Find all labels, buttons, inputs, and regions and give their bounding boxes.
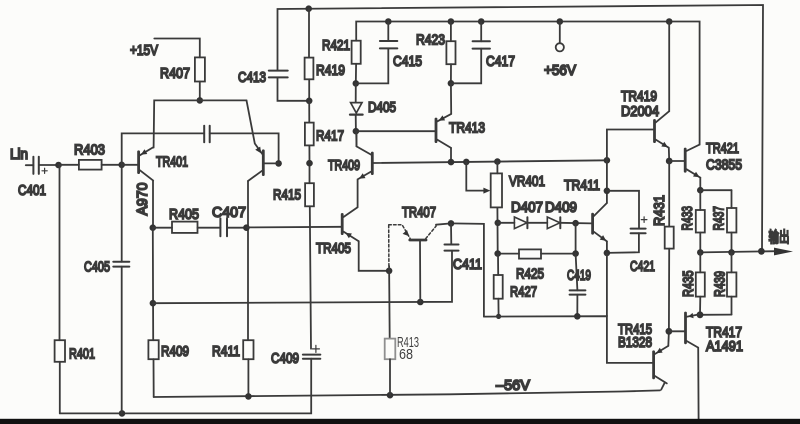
resistor R407 (160, 57, 205, 82)
svg-text:C405: C405 (84, 259, 110, 276)
wire: TR405 base line (246, 226, 341, 229)
wire: TR401 collector drop (152, 181, 154, 228)
node: D405 cathode / TR413 base / TR409 collector (353, 128, 360, 135)
node: VAS rail / VR401 top (494, 158, 501, 165)
node: TR405 emitter / R413 column (386, 268, 393, 275)
resistor R401 (55, 340, 95, 362)
wire: R411 to -56V rail (247, 359, 249, 396)
wire: TR421 emitter drop (699, 178, 701, 191)
transistor TR411 (564, 177, 607, 241)
svg-text:R419: R419 (316, 62, 345, 79)
node: VAS rail / TR411 collector / TR419 base (604, 157, 611, 164)
wire: TR419 emitter to TR421 base (668, 148, 670, 161)
transistor TR413 (436, 114, 485, 148)
wire: C407 to TR405 base (227, 227, 246, 229)
wire: TR411 emitter drop (606, 241, 608, 253)
node: TR417 emitter / R435 R439 bottom (697, 311, 704, 318)
svg-text:R421: R421 (322, 37, 350, 54)
svg-text:R425: R425 (516, 266, 544, 283)
wire: TR413 emitter up to R423 node (450, 83, 452, 114)
resistor R411 (212, 340, 254, 360)
wire: VAS rail (374, 160, 607, 163)
node: rail A / R419 junction (305, 5, 312, 12)
svg-text:C413: C413 (238, 69, 266, 86)
transistor TR421 (685, 140, 742, 178)
wire: R407 to diff tail (199, 82, 201, 101)
svg-text:D2004: D2004 (621, 103, 659, 120)
transistor TR403 (right half of diff pair) (247, 100, 279, 181)
diode D409 (545, 199, 577, 229)
svg-text:+56V: +56V (544, 62, 576, 79)
svg-text:A970: A970 (134, 183, 151, 216)
svg-text:R431: R431 (651, 195, 668, 226)
wire: R405 node down to R409 (152, 228, 154, 341)
svg-text:Lin: Lin (10, 146, 28, 163)
svg-text:D407: D407 (511, 199, 543, 216)
terminal +56V (544, 22, 576, 80)
node: ground rail / C405 (119, 410, 126, 417)
node: input junction (55, 162, 62, 169)
svg-text:A1491: A1491 (706, 338, 743, 355)
capacitor C407 (212, 204, 246, 236)
resistor R431 (651, 161, 674, 331)
node: R425 right / C419 top (572, 250, 579, 257)
bottom border bar (0, 419, 800, 424)
svg-text:VR401: VR401 (509, 173, 545, 190)
node: -56V / R413 (387, 392, 394, 399)
node: TR401 collector / R405 junction (150, 224, 157, 231)
svg-text:R409: R409 (161, 343, 189, 360)
svg-text:C401: C401 (18, 182, 46, 199)
node: output / R437 (728, 249, 735, 256)
svg-text:C407: C407 (212, 204, 246, 221)
svg-text:R427: R427 (510, 284, 537, 301)
wire: TR413 base line (356, 130, 435, 132)
node: rail B / C415 (385, 18, 392, 25)
node: TR419 emitter / TR421 base / R431 (666, 158, 673, 165)
svg-text:C419: C419 (567, 267, 591, 284)
resistor R413 (385, 334, 419, 363)
resistor R415 (273, 163, 314, 206)
wire: emitter down to bias rail (606, 253, 608, 316)
node: R425 left / R427 top (494, 250, 501, 257)
wire: C401 to input node (39, 164, 59, 166)
node: VR401 bottom / D407 anode (495, 220, 502, 227)
wire: TR411 collector up / TR419 base feed (607, 130, 654, 204)
wire: TR419 collector to rail B (668, 22, 670, 112)
wire: TR409 collector up-link (355, 131, 357, 146)
capacitor C413 (238, 69, 288, 86)
node: mid rail / TR407 lead (417, 299, 424, 306)
wire: output line (700, 251, 776, 252)
wire: C413 bottom to R419 node (278, 77, 310, 100)
node: D409 / TR411 base / R425 link (572, 220, 579, 227)
node: TR411 collector / C421 top (604, 188, 611, 195)
capacitor C405 (84, 259, 129, 276)
resistor R405 (153, 206, 221, 233)
resistor R435 (680, 252, 705, 314)
wire: R435/R439 bottom link (700, 314, 732, 316)
svg-text:D409: D409 (545, 199, 577, 216)
potentiometer VR401 (466, 162, 545, 254)
wire: bias rail (484, 316, 653, 363)
wire: R401 to ground rail (59, 362, 61, 414)
wire: TR417 collector to bottom (697, 348, 699, 420)
node: output / R433 (697, 249, 704, 256)
node: R423 / C417 bottom (448, 80, 455, 87)
resistor R423 (416, 22, 456, 84)
wire: base link TR421 (669, 160, 684, 162)
resistor R437 (711, 190, 737, 252)
output arrow (774, 248, 793, 256)
svg-text:+15V: +15V (130, 42, 158, 59)
resistor R419 (305, 9, 345, 101)
svg-text:TR405: TR405 (316, 240, 351, 257)
wire: R413 to -56V rail (389, 359, 391, 395)
svg-text:R439: R439 (712, 271, 729, 297)
wire: TR413 collector down to VAS rail (450, 148, 452, 162)
wire: R415 down to C409 (310, 206, 311, 348)
wire: D409 cathode to TR411 base (560, 222, 591, 225)
node: mid rail left end (150, 300, 157, 307)
wire: junction to R413 (388, 266, 391, 339)
capacitor C401 (18, 157, 47, 199)
node: rail B / C417 (478, 18, 485, 25)
wire: +15V feed (154, 39, 200, 58)
svg-text:TR413: TR413 (449, 120, 485, 137)
node: R419 / C413 / R417 (306, 98, 313, 105)
node: VAS rail / TR413 collector (448, 159, 455, 166)
node: C407 / collector column junction (243, 224, 250, 231)
diode D405 (350, 83, 396, 131)
svg-text:C417: C417 (486, 53, 515, 70)
wire: C405 to ground rail (121, 267, 123, 414)
svg-text:TR401: TR401 (156, 154, 188, 171)
node: R427 bottom on bias rail (496, 314, 501, 319)
capacitor C419 (567, 254, 591, 317)
node: TR421 emitter / R433 R437 top (697, 187, 704, 194)
wire: TR405 emitter drop (359, 241, 389, 271)
wire: R409 to -56V rail (153, 359, 155, 397)
node: TR407 / C411 top (448, 220, 455, 227)
node: VAS rail / VR401 wiper (463, 159, 470, 166)
resistor R427 (494, 254, 537, 317)
wire: -56V rail (154, 390, 660, 397)
node: R421 / C415 bottom (353, 80, 360, 87)
svg-text:输出: 输出 (769, 228, 790, 245)
svg-text:R437: R437 (711, 206, 728, 231)
wire: +56V supply rail B (356, 22, 699, 145)
resistor R439 (712, 252, 737, 314)
transistor TR415 (618, 321, 668, 383)
node: output / bootstrap frame (758, 248, 765, 255)
wire: mid horizontal rail (153, 251, 452, 304)
node: rail B / R423 (448, 18, 455, 25)
svg-text:R433: R433 (679, 206, 696, 231)
resistor R433 (679, 190, 705, 252)
svg-text:TR407: TR407 (402, 204, 436, 221)
wire: base node to C405 (121, 165, 123, 262)
resistor R425 (498, 249, 576, 282)
transistor TR405 (316, 207, 359, 257)
wire: bias ladder vertical link (575, 223, 577, 253)
node: right diff base junction (275, 160, 282, 167)
wire: TR415 collector up (667, 331, 670, 346)
svg-text:68: 68 (399, 346, 413, 363)
node: TR411 emitter / C421 bottom (604, 250, 611, 257)
svg-text:R411: R411 (212, 343, 240, 360)
svg-text:R417: R417 (316, 128, 344, 145)
svg-text:C411: C411 (453, 256, 482, 273)
node: -56V / R411 (245, 393, 252, 400)
wire: ground return rail (60, 359, 311, 414)
node: bias rail / C419 bottom (574, 313, 581, 320)
capacitor C409 (271, 345, 320, 367)
wire: emitter ladder top link (700, 189, 731, 191)
resistor R417 (305, 101, 344, 163)
wire: input node down to R401 (59, 165, 61, 340)
svg-text:R405: R405 (169, 206, 199, 223)
transistor TR417 (669, 313, 743, 355)
resistor R409 (148, 340, 189, 360)
wire: TR415 emitter tail to -56V (661, 382, 665, 389)
svg-text:C415: C415 (393, 53, 422, 70)
transistor TR409 (328, 131, 372, 207)
svg-text:D405: D405 (368, 99, 396, 116)
wire: top bootstrap rail A (278, 5, 764, 251)
svg-text:C3855: C3855 (706, 157, 742, 174)
wire: D407 to D409 (527, 222, 547, 224)
wire: right diff collector drop to R411 (247, 181, 249, 340)
svg-text:R401: R401 (69, 346, 95, 363)
wire: base-to-base link left (122, 133, 205, 164)
node: R417 / R415 / diff base junction (306, 160, 313, 167)
capacitor C421 (607, 217, 655, 275)
capacitor C415 (356, 22, 422, 84)
node: diff pair tail (197, 97, 204, 104)
svg-text:C409: C409 (271, 350, 299, 367)
svg-text:R423: R423 (416, 32, 445, 49)
svg-text:TR421: TR421 (706, 140, 739, 157)
svg-text:TR409: TR409 (328, 157, 360, 174)
diode D407 (498, 199, 543, 229)
svg-text:R435: R435 (680, 271, 697, 298)
node: TR401 base junction (118, 162, 125, 169)
wire: dashed link to TR407 base lead (388, 225, 390, 266)
capacitor C417 (451, 22, 515, 84)
svg-text:TR411: TR411 (564, 177, 600, 194)
svg-text:R403: R403 (74, 142, 105, 159)
svg-text:–56V: –56V (496, 377, 530, 394)
svg-text:B1328: B1328 (618, 334, 652, 351)
wire: diff pair tail line (154, 100, 247, 147)
node: rail B / TR419 collector (666, 18, 673, 25)
svg-text:C421: C421 (630, 258, 655, 275)
wire: C421 top link (607, 191, 639, 229)
resistor R403 (59, 142, 122, 170)
transistor TR401 (122, 148, 188, 216)
svg-text:R415: R415 (273, 187, 301, 204)
capacitor C411 (445, 223, 483, 273)
node: rail B / +56V terminal (557, 18, 564, 25)
wire: riser C411 node to bias rail (451, 223, 484, 316)
node: R431 / TR415 collector / TR417 base (666, 328, 673, 335)
transistor TR419 (621, 88, 669, 148)
svg-text:R407: R407 (160, 65, 190, 82)
resistor R421 (322, 37, 361, 83)
transistor TR407 (389, 204, 451, 302)
wire: base-to-base link right (210, 133, 279, 163)
capacitor between diff bases (204, 126, 210, 142)
